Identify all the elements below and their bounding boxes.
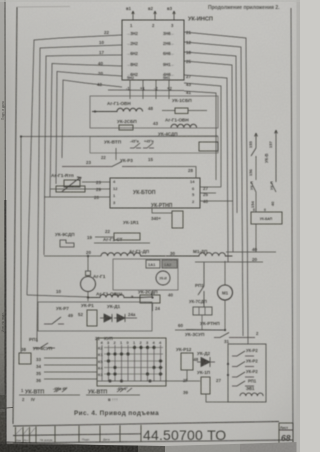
thermal contact 2 [143,143,154,148]
column headers [101,340,163,345]
wire 20 long [44,255,101,257]
title verticals [16,425,142,443]
wire rtnp [186,329,223,332]
resistor UK-1SBP [162,110,207,112]
label UK-R3 [115,148,117,160]
rheostat Rtp [56,177,85,192]
inductor M1-DP [166,253,232,256]
resistor 22 [114,233,140,240]
wire bus R2 [184,42,243,336]
left page edge shadow [0,0,1,1]
wire gen up [87,256,89,271]
inductor Ag-G1-DP [101,253,166,256]
meter box [113,259,178,290]
inductor OVN1 [92,108,143,111]
thermal sym left [54,388,67,392]
contact ZSUP [214,333,255,338]
resistor UK-1P [201,377,210,394]
title top line [13,422,279,427]
wire long y136 [21,135,218,138]
wire 10 [27,295,88,297]
wire bus L5 [56,72,122,185]
wire v1 [255,158,257,180]
wire drop -1 [129,80,131,99]
contact dots [107,346,162,383]
wire 24 tick [152,303,154,311]
left margin blobs [0,395,6,409]
wire bus L2 [37,45,122,342]
wires BTOP left [44,182,110,197]
wire VTP underline [19,394,80,396]
box UK-BAP [251,212,282,224]
diode D1b [114,314,137,322]
box KUP [97,338,166,386]
section outline [90,96,218,128]
wire bus L3 [44,55,122,255]
box U-top [122,20,184,80]
box around R7 R1 D1 [38,302,152,331]
wire R12 [186,370,188,382]
left pin numbers [97,30,109,87]
right page edge [297,0,301,452]
wires to BAP [255,192,257,212]
wire bus L6 [62,80,122,158]
box UK-9SDP [60,240,74,247]
wire bus R3 [184,52,237,213]
arrow v3 [173,11,176,20]
motor M1 [218,285,233,300]
wire 22 [95,236,114,238]
wire VTP2 underline [86,394,140,396]
contact UK-R7 [44,317,64,324]
left bus vertical low [20,295,22,354]
wire bus R4 [184,61,233,252]
wire bus L1 [27,35,122,295]
wire bus R1 [184,32,248,344]
wire 40 h [226,251,276,253]
box relay stack [228,344,266,402]
inner row labels [126,31,175,80]
wire drop +1 [142,80,144,99]
title text row line [13,440,293,443]
bottom dark band left [0,444,138,452]
contact UK-R3 [62,162,136,167]
wire M1 up [224,261,226,285]
resistor 1R1 [172,211,183,228]
bottom pin labels -1 +1 -2 +2 [126,86,172,91]
contact UK-V [251,148,256,158]
grid rows [104,348,163,375]
wire drop +2 [168,80,170,99]
inductor OVN2 [171,124,197,127]
frame right line [291,8,293,445]
left margin stamps [1,101,5,332]
wire bus R5 [184,75,228,262]
resistor UK-4SUP [19,353,31,364]
resistor UK-R12 [181,353,193,370]
wire bus R6 [184,83,221,187]
title mid line [13,434,141,436]
arrow up 2 [275,130,278,150]
box UK-BTOP [110,178,200,208]
thermal sym right [117,388,132,392]
diode D1a [100,314,112,322]
frame left line [13,7,17,424]
junction dots misc [20,110,229,376]
shunt 1A2 [162,260,177,268]
shunt 1A1 [146,260,160,268]
contact UK-P 1 [251,182,256,192]
wires BAP down [255,224,257,252]
top edge smudge [0,0,300,2]
wire M1 down [175,300,225,330]
generator circle [81,277,96,292]
wire bus L4 [50,64,122,198]
wire R3 to right [136,167,196,179]
wires 33-36 [44,358,97,379]
arrow v2 [154,11,157,20]
frame top line [17,6,70,9]
junction dot [87,296,89,298]
resistor UK-2SBP [119,125,133,130]
wire bus R7 [184,91,216,180]
wire KUP bottom [97,380,200,382]
inductor EV1 [240,393,263,396]
pins 33-36 [36,357,41,383]
arrow v1 [132,11,135,20]
wire bus x21 [20,137,22,295]
row labels [98,346,103,378]
wire 20 h [195,261,263,263]
resistor UK-R1 [87,310,97,326]
wire drop -2 [155,80,157,99]
frame tick [0,408,13,409]
arrow up 1 [255,133,258,148]
hatch cells [16,428,35,434]
tiny header text [16,437,110,442]
wire 19 [94,242,150,244]
contact RP1 [33,343,55,348]
resistor UK-2SDP [140,295,160,303]
bottom band right [165,442,300,452]
section outline 2 [90,137,218,154]
list box [279,423,293,445]
wire 42 stub [108,89,184,92]
wire 1P down [206,394,228,402]
thermal contact 1 [130,143,141,148]
meter UK-I [156,271,170,285]
resistor UK-4SDP [199,142,218,151]
wire 1R1 top [152,208,172,213]
diode D2 [197,357,215,367]
wire gen down [87,292,89,302]
wires BTOP right [200,187,233,201]
right pin numbers [186,30,191,95]
inductor Ag-G1-OVSh [88,291,152,298]
grid verticals [102,345,161,381]
contact UK-P 2 [271,150,276,192]
brush cap [86,271,91,276]
